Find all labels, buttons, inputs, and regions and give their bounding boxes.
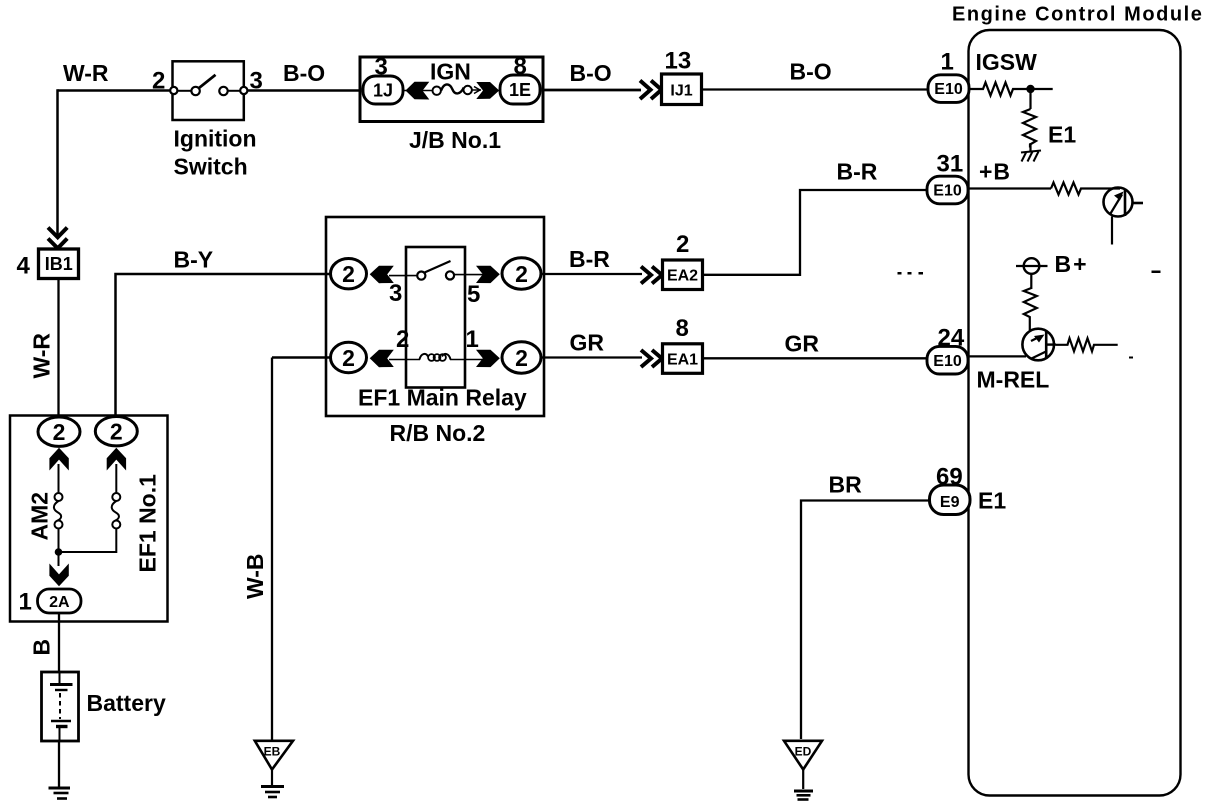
svg-text:2A: 2A: [49, 594, 70, 611]
wire relay contact left: [389, 275, 417, 277]
junction connector IJ1: [662, 74, 702, 105]
resistor R4 (B+): [1024, 288, 1037, 330]
wire to ground: [1029, 143, 1031, 152]
wire fuse link left: [403, 90, 433, 92]
resistor R2 (to E1 ground): [1023, 109, 1036, 148]
svg-text:R/B No.2: R/B No.2: [390, 420, 486, 446]
arrow right (relay bottom): [476, 350, 500, 367]
svg-text:2: 2: [110, 419, 123, 445]
svg-text:B-R: B-R: [837, 159, 878, 185]
svg-text:1: 1: [941, 49, 954, 76]
svg-text:8: 8: [676, 315, 689, 342]
wire 2A to battery: [58, 613, 60, 673]
svg-text:J/B No.1: J/B No.1: [409, 127, 501, 153]
svg-text:EA1: EA1: [667, 351, 698, 368]
svg-text:E10: E10: [933, 353, 962, 370]
svg-text:1: 1: [19, 589, 32, 616]
arrow left (J/B): [406, 82, 430, 100]
arrow left (relay top): [370, 266, 394, 283]
ground (battery): [49, 788, 71, 799]
pin 31 connector E10 (+B): [927, 176, 968, 204]
svg-text:31: 31: [937, 151, 964, 178]
connector 1J: [363, 76, 403, 104]
resistor R5 (M-REL): [1056, 338, 1118, 351]
connector 1E: [500, 75, 540, 104]
label Ignition Switch: [174, 126, 257, 180]
wire relay to EA1: [541, 356, 642, 358]
wire relay coil right: [450, 359, 483, 361]
svg-text:2: 2: [342, 261, 355, 287]
splice chevrons down (IB1): [48, 228, 67, 249]
connector 2A: [38, 589, 82, 613]
arrow down (to 2A): [49, 564, 68, 587]
svg-text:E9: E9: [940, 494, 960, 511]
wire J/B to JI1: [543, 89, 641, 92]
svg-text:5: 5: [467, 281, 480, 308]
splice chevrons (EA2): [641, 267, 662, 284]
svg-text:Ignition: Ignition: [174, 126, 257, 152]
wire ED to ground: [802, 770, 804, 790]
wire W-R horizontal: [58, 89, 172, 92]
terminal B+: [1016, 258, 1048, 274]
relay block R/B No.2: [326, 217, 544, 416]
ground triangle EB: [255, 741, 293, 770]
ground triangle ED: [784, 741, 822, 770]
svg-text:2: 2: [515, 345, 528, 371]
relay contact circles and lever: [417, 261, 454, 280]
svg-text:3: 3: [389, 280, 402, 307]
wire pin24 to Q2: [968, 355, 1026, 357]
connector 2 (relay bottom-right): [502, 342, 541, 373]
junction block J/B No.1: [360, 57, 543, 122]
fuse AM2: [54, 493, 63, 529]
svg-text:1J: 1J: [373, 81, 393, 101]
wire EF1 fuse down and left to junction: [59, 529, 117, 553]
wire EA1 to pin 24: [703, 357, 929, 359]
svg-text:2: 2: [676, 231, 689, 258]
svg-text:2: 2: [396, 326, 409, 353]
relay inner box EF1 main relay: [406, 247, 465, 388]
svg-text:24: 24: [938, 325, 965, 352]
transistor Q1: [1104, 188, 1144, 245]
svg-text:69: 69: [936, 464, 963, 491]
wire W-B horizontal: [272, 356, 330, 359]
node junction dot (AM2): [55, 548, 63, 556]
svg-text:EF1 Main Relay: EF1 Main Relay: [358, 385, 527, 411]
svg-text:+B: +B: [979, 159, 1011, 185]
svg-text:IGSW: IGSW: [976, 49, 1038, 75]
wire relay to EA2: [540, 273, 642, 275]
svg-text:M-REL: M-REL: [977, 367, 1050, 393]
svg-text:B-R: B-R: [569, 246, 610, 272]
svg-text:8: 8: [514, 53, 527, 80]
arrow up (EF1): [107, 448, 126, 471]
svg-text:Switch: Switch: [174, 154, 248, 180]
svg-text:E1: E1: [1048, 122, 1076, 148]
svg-text:E1: E1: [978, 488, 1006, 514]
svg-text:IJ1: IJ1: [670, 83, 692, 100]
stray mark 2: [1129, 357, 1133, 359]
connector 2 (relay top-right): [502, 258, 541, 289]
svg-text:B+: B+: [1055, 251, 1089, 277]
node junction dot: [1026, 85, 1034, 93]
wire IB1 to AM2: [57, 278, 59, 418]
wire B-Y: [116, 274, 331, 418]
ellipsis dashes (continuation): [898, 272, 924, 275]
wire AM2 fuse upper: [58, 464, 60, 493]
svg-text:ED: ED: [795, 745, 812, 759]
svg-text:E10: E10: [934, 81, 963, 98]
junction connector IB1: [39, 249, 79, 279]
svg-text:W-R: W-R: [29, 333, 55, 379]
svg-text:2: 2: [53, 419, 66, 445]
svg-text:GR: GR: [785, 331, 820, 357]
wire B+ to resistor: [1030, 274, 1032, 289]
arrow right (J/B): [476, 82, 499, 99]
svg-text:GR: GR: [570, 330, 605, 356]
svg-text:Engine Control Module: Engine Control Module: [952, 4, 1203, 26]
svg-text:13: 13: [665, 48, 692, 75]
battery BAT1: [42, 672, 79, 741]
svg-text:B: B: [29, 639, 55, 656]
svg-text:B-Y: B-Y: [174, 247, 214, 273]
resistor R1 (IGSW): [969, 83, 1030, 96]
wire ign switch to J/B: [247, 89, 361, 92]
connector 2 (relay top-left): [331, 259, 367, 289]
connector 2 (AM2 left): [38, 417, 80, 446]
wire EA2 to pin 31: [703, 190, 928, 275]
svg-text:EA2: EA2: [667, 268, 698, 285]
wire relay coil left: [389, 359, 420, 361]
svg-text:4: 4: [17, 253, 31, 280]
ground (EB): [261, 787, 284, 798]
wire JI1 to pin1: [702, 88, 929, 90]
wire EF1 fuse upper: [115, 464, 117, 493]
svg-text:B-O: B-O: [790, 59, 832, 85]
wire W-R vertical: [56, 89, 59, 236]
connector 2 (EF1 right): [95, 417, 137, 446]
svg-text:E10: E10: [933, 183, 962, 200]
ignition switch: [170, 61, 247, 120]
svg-text:IGN: IGN: [430, 59, 471, 85]
svg-text:B-O: B-O: [570, 60, 612, 86]
svg-text:2: 2: [515, 261, 528, 287]
arrow up (AM2): [49, 448, 68, 471]
pin 69 connector E9 (E1): [930, 485, 971, 515]
svg-text:B-O: B-O: [283, 60, 325, 86]
svg-text:AM2: AM2: [27, 492, 53, 541]
splice chevrons (EA1): [641, 350, 662, 367]
svg-text:IB1: IB1: [45, 254, 73, 274]
wire AM2 fuse to junction: [58, 529, 60, 567]
resistor R3 (+B): [1051, 183, 1120, 195]
wire pin31 to resistor: [968, 187, 1051, 189]
svg-text:W-R: W-R: [63, 60, 109, 86]
ECM box U1: [969, 30, 1181, 796]
arrow left (relay bottom): [370, 350, 394, 367]
splice mark (fuse right): [474, 87, 480, 94]
stray mark 1: [1152, 271, 1161, 274]
splice chevrons (IJ1): [640, 81, 662, 100]
ground E1 (slash style): [1021, 151, 1041, 162]
svg-text:2: 2: [152, 68, 165, 95]
fuse EF1 No.1: [112, 493, 121, 529]
wire W-B vertical: [271, 358, 273, 741]
connector 2 (relay bottom-left): [331, 342, 367, 372]
wire fuse link right: [471, 89, 481, 91]
svg-text:1E: 1E: [509, 80, 531, 100]
svg-text:BR: BR: [829, 472, 863, 498]
svg-text:EF1 No.1: EF1 No.1: [135, 474, 161, 573]
junction connector EA2: [663, 260, 703, 290]
wire EB to ground: [271, 770, 273, 786]
svg-text:Battery: Battery: [87, 690, 166, 716]
svg-text:EB: EB: [264, 745, 281, 759]
wire BR: [801, 501, 931, 740]
wire dot to resistor R2: [1029, 89, 1031, 109]
svg-text:2: 2: [342, 345, 355, 371]
junction connector EA1: [663, 344, 703, 374]
transistor Q2: [1022, 329, 1056, 361]
wire battery to ground: [58, 741, 60, 787]
arrow right (relay top): [476, 266, 500, 283]
svg-text:1: 1: [466, 326, 479, 353]
fuse IGN: [433, 84, 472, 95]
svg-text:3: 3: [375, 54, 388, 81]
svg-text:W-B: W-B: [242, 553, 268, 599]
wire stub right of dot: [1031, 88, 1053, 90]
ground (ED): [794, 791, 813, 800]
pin 24 connector E10 (M-REL): [927, 346, 968, 374]
wire relay contact right: [454, 274, 483, 276]
relay coil: [420, 354, 451, 361]
pin 1 connector E10 (IGSW): [928, 75, 969, 103]
fuse box AM2 / EF1 No.1: [10, 416, 168, 622]
